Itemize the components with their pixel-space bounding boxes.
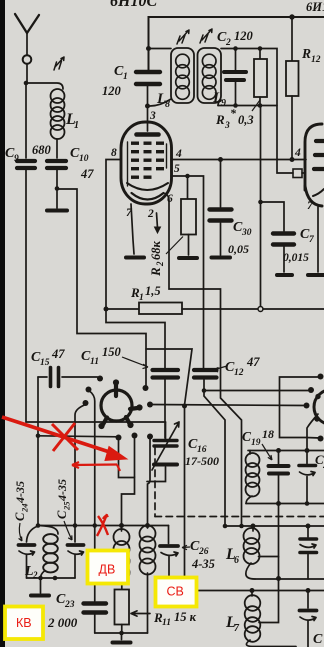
svg-text:R: R [148, 267, 163, 277]
svg-text:68к: 68к [149, 241, 163, 261]
svg-text:1: 1 [123, 72, 128, 82]
svg-text:4-35: 4-35 [55, 479, 69, 502]
svg-text:КВ: КВ [16, 616, 32, 630]
svg-text:47: 47 [246, 355, 260, 369]
svg-text:11: 11 [90, 357, 99, 367]
svg-text:5: 5 [174, 163, 180, 175]
svg-text:C: C [313, 632, 323, 647]
svg-text:17-500: 17-500 [185, 454, 219, 468]
svg-text:ДВ: ДВ [99, 563, 116, 577]
svg-text:*: * [230, 106, 237, 120]
svg-text:18: 18 [262, 427, 274, 441]
svg-text:2: 2 [155, 261, 165, 267]
svg-text:0,3: 0,3 [238, 113, 254, 127]
svg-text:23: 23 [64, 600, 75, 610]
svg-text:C: C [55, 510, 69, 519]
svg-text:2: 2 [147, 208, 154, 220]
svg-text:8: 8 [111, 147, 117, 159]
svg-text:6И1: 6И1 [306, 0, 324, 14]
svg-text:120: 120 [234, 29, 254, 43]
svg-text:26: 26 [198, 547, 209, 557]
svg-text:8: 8 [165, 99, 170, 110]
svg-text:47: 47 [51, 347, 65, 361]
svg-text:2: 2 [225, 38, 231, 48]
svg-text:2: 2 [32, 570, 38, 580]
svg-text:3: 3 [224, 121, 230, 131]
svg-text:R: R [301, 46, 311, 61]
svg-text:4-35: 4-35 [13, 481, 27, 504]
svg-text:6: 6 [234, 555, 239, 566]
svg-text:1,5: 1,5 [145, 284, 161, 298]
svg-text:4: 4 [175, 148, 182, 160]
svg-text:120: 120 [102, 84, 122, 98]
svg-text:680: 680 [32, 143, 52, 157]
svg-text:47: 47 [80, 167, 94, 181]
svg-text:СВ: СВ [167, 585, 184, 599]
svg-text:15: 15 [40, 358, 50, 368]
svg-text:30: 30 [241, 228, 252, 238]
svg-text:10: 10 [79, 154, 89, 164]
svg-text:C: C [13, 512, 27, 521]
svg-text:6: 6 [167, 193, 173, 205]
svg-text:2 000: 2 000 [47, 615, 78, 630]
svg-text:15 к: 15 к [174, 610, 197, 624]
svg-text:12: 12 [234, 368, 244, 378]
svg-text:11: 11 [162, 618, 171, 628]
svg-text:1: 1 [139, 293, 144, 303]
svg-text:24: 24 [20, 504, 30, 514]
svg-text:9: 9 [14, 154, 19, 164]
svg-text:12: 12 [311, 55, 321, 65]
svg-text:25: 25 [62, 501, 72, 511]
svg-text:3: 3 [149, 110, 156, 122]
svg-text:0,05: 0,05 [228, 242, 249, 256]
svg-text:19: 19 [251, 438, 261, 448]
svg-text:1: 1 [74, 120, 79, 131]
svg-text:150: 150 [102, 345, 122, 359]
svg-text:R: R [215, 112, 225, 127]
svg-text:4-35: 4-35 [191, 557, 215, 571]
svg-text:6Н10С: 6Н10С [110, 0, 157, 10]
svg-text:0,015: 0,015 [283, 252, 309, 264]
svg-text:4: 4 [294, 147, 301, 159]
svg-text:9: 9 [221, 98, 226, 109]
